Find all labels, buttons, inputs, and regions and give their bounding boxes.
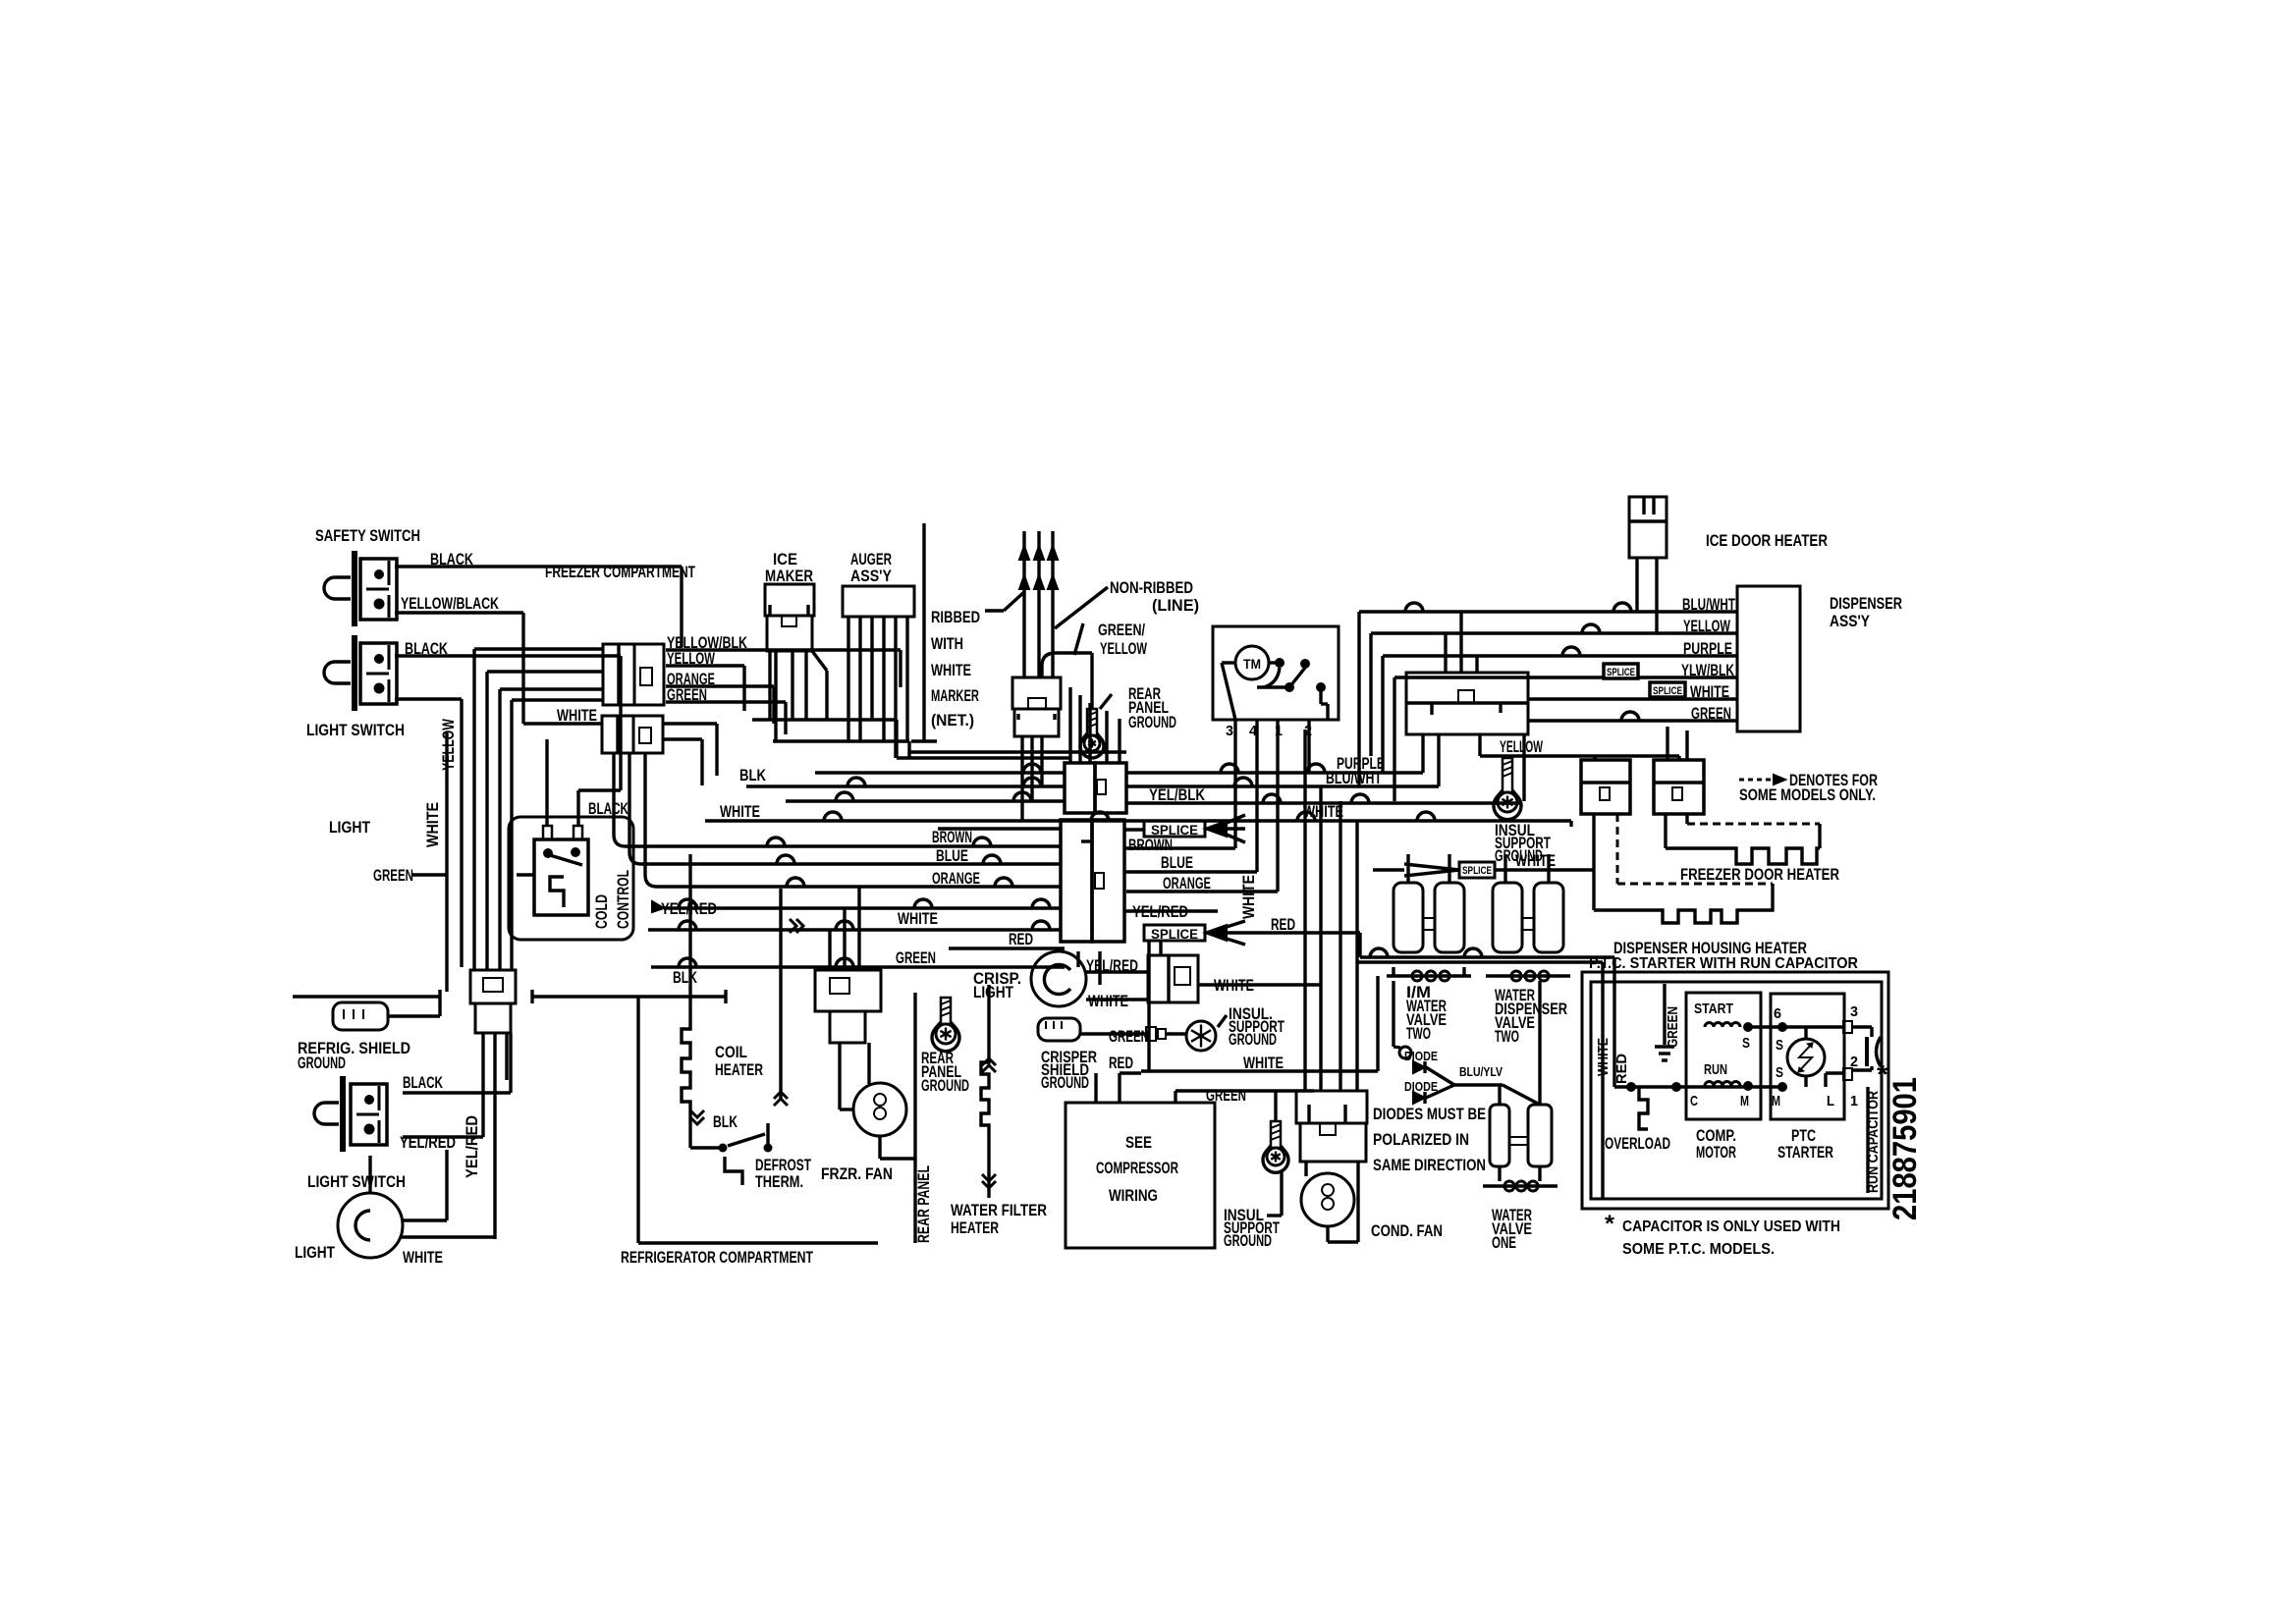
cond fan connector: [1296, 1091, 1367, 1162]
wires crisper light: [1086, 972, 1148, 1000]
label BLU/YLV: [1459, 1064, 1503, 1079]
svg-text:POLARIZED IN: POLARIZED IN: [1373, 1130, 1469, 1149]
svg-text:ICE DOOR HEATER: ICE DOOR HEATER: [1706, 531, 1828, 550]
svg-text:HEATER: HEATER: [715, 1060, 763, 1079]
coil heater CH: [682, 854, 781, 1148]
svg-text:CONTROL: CONTROL: [614, 870, 632, 929]
svg-text:WHITE: WHITE: [1243, 1054, 1284, 1072]
label pins 3 4 1 2: [1226, 723, 1312, 739]
wire WHITE long: [1141, 976, 1378, 1071]
wires below ice maker: [770, 651, 827, 741]
wire white to connector: [1495, 868, 1594, 871]
svg-text:RED: RED: [1613, 1054, 1630, 1084]
svg-text:WHITE: WHITE: [1690, 682, 1729, 701]
freezer door connector 1: [1581, 756, 1630, 814]
wires from connector B: [663, 724, 717, 785]
svg-text:GROUND: GROUND: [1229, 1030, 1277, 1049]
splice S5 white: [1373, 862, 1495, 878]
insul support ground G4: [1263, 1091, 1288, 1172]
label YELLOW/BLK: [667, 633, 748, 652]
svg-text:WHITE: WHITE: [1595, 1038, 1612, 1076]
svg-text:YEL/BLK: YEL/BLK: [1149, 785, 1206, 804]
label ORANGE: [667, 670, 715, 688]
label SAFETY SWITCH: [315, 526, 420, 545]
label BLU/WHT: [1326, 769, 1382, 787]
timer motor TM: [1235, 646, 1269, 679]
label RED: [1009, 930, 1033, 948]
label WHITE: [1690, 682, 1729, 701]
svg-text:FRZR. FAN: FRZR. FAN: [821, 1164, 893, 1183]
svg-text:WHITE: WHITE: [1239, 875, 1258, 919]
wire green to insul ground: [1080, 1032, 1146, 1035]
svg-text:(NET.): (NET.): [931, 711, 974, 730]
svg-text:BLU/YLV: BLU/YLV: [1459, 1064, 1503, 1079]
wire GREEN vertical in PTC: [1663, 984, 1666, 1045]
label BLK: [673, 968, 698, 987]
label GREEN/YELLOW: [1098, 621, 1148, 658]
label YELLOW: [1683, 617, 1731, 635]
svg-text:ORANGE: ORANGE: [1163, 874, 1211, 893]
svg-text:BLACK: BLACK: [588, 799, 629, 818]
feeder wires to center connector: [752, 687, 1126, 763]
svg-text:BLACK: BLACK: [403, 1073, 443, 1092]
label YEL/RED: [400, 1133, 456, 1152]
wire to cold control left terminal: [545, 739, 548, 826]
label LIGHT SWITCH: [306, 721, 405, 739]
svg-text:YEL/RED: YEL/RED: [1132, 902, 1188, 921]
overload protector OL: [1639, 1087, 1648, 1129]
svg-text:DIODES MUST BE: DIODES MUST BE: [1373, 1105, 1486, 1123]
svg-text:LIGHT SWITCH: LIGHT SWITCH: [307, 1172, 406, 1191]
wire YELLOW vertical: [395, 699, 462, 967]
I/M water valve two WV2a: [1387, 883, 1471, 981]
label GREEN (vertical): [1665, 1006, 1681, 1048]
wire YELLOW/BLACK: [395, 613, 602, 724]
lower connector: [470, 970, 516, 1033]
PTC starter box: [1771, 994, 1844, 1119]
wire red down: [1120, 1073, 1141, 1103]
svg-text:218875901: 218875901: [1886, 1077, 1924, 1220]
label DIODE 2: [1404, 1079, 1438, 1094]
label ICE DOOR HEATER: [1706, 531, 1828, 550]
label FRZR. FAN: [821, 1164, 893, 1183]
svg-text:SPLICE: SPLICE: [1462, 865, 1492, 877]
defrost thermostat DT: [690, 1123, 773, 1185]
timer contacts: [1222, 658, 1328, 720]
label WATER DISPENSER VALVE TWO: [1495, 986, 1567, 1046]
water dispenser valve two WV2b: [1486, 883, 1570, 981]
pointer ribbed: [985, 591, 1025, 611]
label WATER VALVE ONE: [1492, 1206, 1532, 1252]
freezer door connector 2: [1654, 727, 1704, 814]
frzr fan connector: [815, 887, 881, 1043]
label YEL/RED: [661, 899, 717, 918]
svg-text:GREEN: GREEN: [373, 866, 413, 885]
wire WHITE mid: [648, 919, 1061, 933]
label LIGHT SWITCH: [307, 1172, 406, 1191]
label BLACK: [405, 639, 449, 658]
net marker line: [911, 523, 937, 741]
label RUN CAPACITOR (vertical): [1865, 1091, 1882, 1193]
label OVERLOAD: [1605, 1134, 1670, 1153]
svg-text:PURPLE: PURPLE: [1683, 639, 1732, 658]
label GREEN: [1109, 1027, 1149, 1046]
label LIGHT: [329, 818, 371, 837]
label RUN: [1704, 1061, 1727, 1078]
svg-text:BLU/WHT: BLU/WHT: [1682, 595, 1735, 614]
timer pin wires: [1235, 720, 1309, 892]
svg-text:WITH: WITH: [931, 634, 963, 653]
svg-text:BROWN: BROWN: [1128, 836, 1173, 854]
label BLK: [739, 766, 767, 784]
wire YEL/RED: [652, 899, 1061, 912]
label INSUL SUPPORT GROUND: [1224, 1170, 1282, 1250]
svg-text:RED: RED: [1009, 930, 1033, 948]
svg-text:*: *: [1605, 1211, 1615, 1237]
PTC inner box: [1591, 982, 1882, 1199]
svg-text:CAPACITOR IS ONLY USED WITH: CAPACITOR IS ONLY USED WITH: [1622, 1218, 1840, 1235]
svg-text:BROWN: BROWN: [932, 828, 972, 846]
label WHITE (vertical): [423, 802, 442, 847]
label YLW/BLK: [1681, 661, 1735, 679]
svg-text:WATER FILTER: WATER FILTER: [951, 1201, 1047, 1219]
label YEL/BLK: [1149, 785, 1206, 804]
label DEFROST THERM.: [755, 1156, 811, 1191]
label BLUE: [936, 846, 968, 865]
svg-text:C: C: [1690, 1093, 1698, 1109]
connector A freezer: [603, 644, 664, 705]
wire BLUE: [735, 855, 1061, 864]
label BROWN: [932, 828, 972, 846]
wire WHITE: [705, 812, 1571, 827]
water filter heater WFH: [981, 985, 996, 1198]
wire YELLOW to dispenser: [1371, 624, 1737, 756]
start winding coil: [1705, 1022, 1753, 1032]
svg-text:REFRIGERATOR COMPARTMENT: REFRIGERATOR COMPARTMENT: [621, 1248, 813, 1267]
label RED right: [1271, 915, 1295, 934]
water valve one WV1: [1483, 1105, 1558, 1191]
auger assembly AG1: [843, 586, 914, 617]
wire BLUE right: [1124, 870, 1257, 873]
label COND. FAN: [1371, 1221, 1443, 1240]
svg-text:ORANGE: ORANGE: [932, 869, 980, 888]
wire WHITE vertical in PTC: [1357, 962, 1603, 1199]
svg-text:GREEN: GREEN: [1109, 1027, 1149, 1046]
wire black to cold control: [578, 790, 621, 826]
wires above water valves: [1408, 854, 1549, 883]
light LP1: [338, 1150, 447, 1258]
svg-text:LIGHT: LIGHT: [295, 1243, 335, 1262]
label FREEZER COMPARTMENT: [545, 563, 695, 581]
label PTC STARTER: [1777, 1126, 1833, 1162]
svg-text:2: 2: [1850, 1054, 1858, 1070]
wire BLU/WHT: [746, 778, 1439, 786]
label I/M WATER VALVE TWO: [1406, 983, 1447, 1043]
svg-text:GROUND: GROUND: [1041, 1073, 1089, 1092]
svg-text:RIBBED: RIBBED: [931, 608, 980, 626]
svg-text:ASS'Y: ASS'Y: [850, 567, 893, 585]
PTC thermistor: [1787, 1039, 1825, 1076]
rear panel ground G1: [1080, 694, 1112, 758]
wire start line: [1748, 1022, 1843, 1039]
svg-text:3: 3: [1850, 1003, 1858, 1020]
rear panel ground G5: [932, 998, 959, 1052]
svg-text:SPLICE: SPLICE: [1607, 667, 1635, 678]
diode junction wires: [1426, 1067, 1540, 1105]
main right connector: [1406, 673, 1528, 734]
svg-text:WHITE: WHITE: [557, 706, 597, 725]
label START: [1694, 1001, 1733, 1017]
wire valve one to dispenser valve: [1538, 981, 1541, 1105]
label ORANGE right: [1163, 874, 1211, 893]
label SOME P.T.C. MODELS.: [1622, 1241, 1775, 1258]
wire GREEN to compressor: [1175, 1091, 1314, 1103]
label DENOTES FOR SOME MODELS ONLY: [1739, 771, 1878, 804]
label AUGER ASS'Y: [850, 550, 893, 585]
label YEL/RED right: [1132, 902, 1188, 921]
insul support ground G3: [1146, 1021, 1216, 1051]
label S: [1742, 1035, 1750, 1052]
svg-text:SAME DIRECTION: SAME DIRECTION: [1373, 1156, 1486, 1174]
svg-text:GREEN/: GREEN/: [1098, 621, 1145, 639]
svg-text:YELLOW: YELLOW: [1500, 737, 1544, 756]
svg-text:M: M: [1772, 1093, 1780, 1109]
label WATER FILTER HEATER: [951, 1201, 1047, 1237]
label WHITE: [403, 1248, 443, 1267]
svg-text:LIGHT: LIGHT: [973, 983, 1013, 1001]
wire elbows to freezer connectors: [474, 649, 603, 705]
label 1: [1850, 1093, 1858, 1109]
svg-text:RED: RED: [1271, 915, 1295, 934]
svg-text:3: 3: [1226, 723, 1233, 739]
svg-text:1: 1: [1850, 1093, 1858, 1109]
wire BLU/WHT to dispenser: [1359, 603, 1737, 786]
svg-text:SEE: SEE: [1125, 1133, 1152, 1152]
wire GREEN to dispenser: [1528, 712, 1737, 721]
splice S1: [938, 815, 1245, 842]
wire green/yellow to ground: [1042, 653, 1092, 709]
light switch SW2: [324, 635, 397, 711]
run capacitor symbol: [1852, 1027, 1881, 1070]
line cord prongs: [1019, 531, 1058, 677]
earth ground: [1655, 1047, 1674, 1060]
label REAR PANEL GROUND: [921, 1049, 969, 1095]
ice maker IM1: [765, 584, 814, 651]
svg-text:WHITE: WHITE: [720, 802, 760, 821]
wire white from light: [401, 1235, 495, 1238]
svg-text:GREEN: GREEN: [1691, 704, 1731, 723]
svg-text:COLD: COLD: [592, 894, 611, 929]
wire GREEN: [651, 958, 1065, 967]
label WHITE right: [1303, 802, 1343, 821]
svg-text:WHITE: WHITE: [423, 802, 442, 847]
label WHITE: [1515, 851, 1556, 870]
svg-text:STARTER: STARTER: [1777, 1143, 1833, 1162]
svg-text:M: M: [1740, 1093, 1749, 1109]
wires below auger: [848, 617, 907, 758]
label WHITE mid: [898, 909, 938, 928]
label GREEN: [667, 685, 707, 704]
label REFRIGERATOR COMPARTMENT: [621, 1248, 813, 1267]
wire YEL/BLK: [786, 792, 1520, 803]
svg-text:S: S: [1742, 1035, 1750, 1052]
wire stubs into compressor box: [1094, 1073, 1097, 1103]
svg-text:FREEZER DOOR HEATER: FREEZER DOOR HEATER: [1680, 865, 1839, 884]
svg-text:S: S: [1776, 1037, 1783, 1054]
label RED: [1109, 1054, 1133, 1072]
terminal 2: [1843, 1054, 1858, 1080]
svg-text:YELLOW: YELLOW: [1683, 617, 1731, 635]
pointer non-ribbed: [1055, 587, 1108, 628]
svg-text:YEL/RED: YEL/RED: [463, 1115, 481, 1178]
svg-text:MAKER: MAKER: [765, 567, 813, 585]
label BLACK: [588, 799, 629, 818]
label BLK: [713, 1112, 738, 1131]
svg-text:GROUND: GROUND: [1128, 713, 1176, 731]
svg-text:FREEZER COMPARTMENT: FREEZER COMPARTMENT: [545, 563, 695, 581]
label BROWN right: [1128, 836, 1173, 854]
label DISPENSER HOUSING HEATER: [1613, 939, 1807, 957]
label INSUL. SUPPORT GROUND: [1218, 1004, 1285, 1049]
label REAR PANEL GROUND: [1128, 684, 1176, 731]
label CRISP. LIGHT: [973, 969, 1021, 1001]
wire white from connector: [1198, 983, 1321, 986]
label WHITE (vertical right): [1239, 875, 1258, 919]
chevrons coil heater: [690, 1092, 788, 1124]
svg-text:DIODE: DIODE: [1404, 1049, 1438, 1063]
wire ORANGE: [723, 878, 1061, 887]
label DIODES MUST BE POLARIZED IN SAME DIRECTION: [1373, 1105, 1486, 1174]
wire green from connector A: [666, 702, 786, 734]
label WHITE (vertical): [1595, 1038, 1612, 1076]
line cord connector: [1012, 677, 1061, 736]
cold control CC1: [517, 826, 588, 915]
wire GREEN: [411, 873, 447, 876]
wires below center connector: [1078, 941, 1161, 1071]
svg-text:DISPENSER: DISPENSER: [1830, 594, 1902, 613]
safety switch SW1: [324, 551, 397, 626]
wire stubs below connector B: [614, 753, 735, 887]
wire BLACK from light switch: [395, 656, 621, 790]
freezer door heater FDH: [1666, 814, 1820, 864]
label BLU/WHT: [1682, 595, 1735, 614]
svg-text:GROUND: GROUND: [1224, 1231, 1272, 1250]
label WHITE: [1088, 992, 1128, 1010]
label YELLOW/BLACK: [401, 594, 500, 613]
wire orange from connector A: [666, 686, 774, 724]
label 218875901 (vertical): [1886, 1077, 1924, 1220]
wire yellow from connector A: [666, 666, 744, 711]
svg-text:BLUE: BLUE: [1161, 853, 1193, 872]
wire BROWN: [728, 838, 1061, 846]
svg-text:BLU/WHT: BLU/WHT: [1326, 769, 1382, 787]
label ORANGE: [932, 869, 980, 888]
see compressor wiring box: [1066, 1103, 1215, 1248]
svg-text:HEATER: HEATER: [951, 1218, 999, 1237]
svg-text:GROUND: GROUND: [921, 1076, 969, 1095]
svg-text:GROUND: GROUND: [298, 1054, 346, 1072]
center connector lower: [1061, 820, 1124, 942]
svg-text:NON-RIBBED: NON-RIBBED: [1110, 578, 1193, 597]
cond fan CF: [1301, 1162, 1358, 1242]
label ICE MAKER: [765, 550, 813, 585]
svg-text:TWO: TWO: [1406, 1024, 1431, 1043]
svg-text:START: START: [1694, 1001, 1733, 1017]
splice S4: [1650, 682, 1685, 697]
label WHITE: [1243, 1054, 1284, 1072]
svg-text:TM: TM: [1243, 656, 1261, 672]
wires from right connector bottom: [1423, 734, 1679, 801]
PTC outer box: [1582, 972, 1888, 1209]
svg-text:COND. FAN: COND. FAN: [1371, 1221, 1443, 1240]
center connector upper: [1065, 763, 1126, 813]
label YELLOW: [667, 649, 716, 668]
connector B freezer: [602, 716, 663, 753]
crisper light connector: [1148, 955, 1198, 1002]
label INSUL SUPPORT GROUND: [1495, 821, 1551, 865]
long verticals to cond fan connector: [1305, 730, 1357, 1091]
asterisk: [1877, 1059, 1889, 1089]
svg-text:LIGHT SWITCH: LIGHT SWITCH: [306, 721, 405, 739]
label WHITE: [1214, 976, 1254, 995]
crisper shield ground connector: [1038, 1018, 1080, 1041]
label 6 S S M L: [1772, 1005, 1834, 1109]
svg-text:YELLOW: YELLOW: [1100, 639, 1148, 658]
svg-text:(LINE): (LINE): [1152, 596, 1199, 615]
diode D2: [1413, 1092, 1425, 1104]
label NON-RIBBED (LINE): [1110, 578, 1199, 615]
svg-text:S: S: [1776, 1064, 1783, 1081]
dispenser assembly box: [1737, 586, 1800, 731]
pointer green/yellow: [1074, 623, 1083, 655]
wire capacitor to bottom: [1866, 1087, 1869, 1193]
label RIBBED WITH WHITE MARKER (NET.): [931, 608, 980, 730]
wires below lower connector: [495, 1033, 507, 1239]
wire black SW3: [403, 1033, 511, 1093]
svg-text:WHITE: WHITE: [1303, 802, 1343, 821]
label COLD CONTROL (vertical): [592, 870, 632, 929]
svg-text:6: 6: [1774, 1005, 1781, 1022]
svg-text:TWO: TWO: [1495, 1027, 1519, 1046]
label REFRIG. SHIELD GROUND: [298, 1039, 410, 1072]
svg-text:MARKER: MARKER: [931, 686, 979, 705]
svg-text:GREEN: GREEN: [896, 948, 936, 967]
svg-text:GREEN: GREEN: [1665, 1006, 1681, 1048]
label YELLOW (vertical): [439, 718, 458, 771]
svg-text:YELLOW/BLACK: YELLOW/BLACK: [401, 594, 500, 613]
label LIGHT: [295, 1243, 335, 1262]
frzr fan FF: [840, 1043, 915, 1159]
wires below line connector: [1022, 736, 1042, 821]
svg-text:BLUE: BLUE: [936, 846, 968, 865]
svg-text:BLK: BLK: [713, 1112, 738, 1131]
svg-text:SAFETY SWITCH: SAFETY SWITCH: [315, 526, 420, 545]
wire yel/red SW3: [403, 1033, 483, 1137]
label FREEZER DOOR HEATER: [1680, 865, 1839, 884]
svg-text:SOME MODELS ONLY.: SOME MODELS ONLY.: [1739, 785, 1876, 804]
svg-text:COMPRESSOR: COMPRESSOR: [1096, 1159, 1178, 1177]
svg-text:COIL: COIL: [715, 1043, 747, 1061]
defrost timer TM box: [1213, 626, 1339, 720]
wire BROWN right: [1124, 846, 1235, 849]
label DIODE 1: [1404, 1049, 1438, 1063]
label YEL/RED: [1086, 956, 1138, 975]
svg-text:THERM.: THERM.: [755, 1172, 803, 1191]
label DISPENSER ASS'Y: [1830, 594, 1902, 630]
label BLUE right: [1161, 853, 1193, 872]
light switch SW3: [314, 1076, 387, 1152]
wire RED vertical in PTC: [1613, 957, 1615, 1087]
